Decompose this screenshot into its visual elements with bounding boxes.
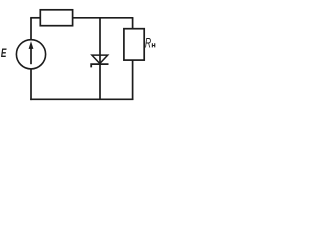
wire: top horizontal from resistor to right branch xyxy=(73,17,134,19)
wire: load resistor bottom vertical xyxy=(132,60,134,100)
wire: zener branch upper vertical xyxy=(99,18,101,64)
svg-text:E: E xyxy=(1,48,7,61)
zener diode VD (anode triangle) xyxy=(92,55,108,63)
zener diode VD (cathode bar with bent end) xyxy=(91,64,108,67)
wire: bottom horizontal xyxy=(30,98,133,100)
svg-text:R: R xyxy=(145,35,152,51)
resistor (series ballast) xyxy=(40,10,72,26)
wire: source bottom riser xyxy=(30,69,32,101)
wire: top left horizontal to resistor xyxy=(30,17,40,19)
EMF source E (circle) xyxy=(16,40,45,69)
label Rн xyxy=(145,35,155,51)
wire: top right corner drop to load resistor xyxy=(132,18,134,29)
resistor Rн (load) xyxy=(124,29,144,60)
wire: source top riser xyxy=(30,18,32,40)
wire: zener branch lower vertical xyxy=(99,63,101,100)
EMF source arrow xyxy=(29,41,34,64)
